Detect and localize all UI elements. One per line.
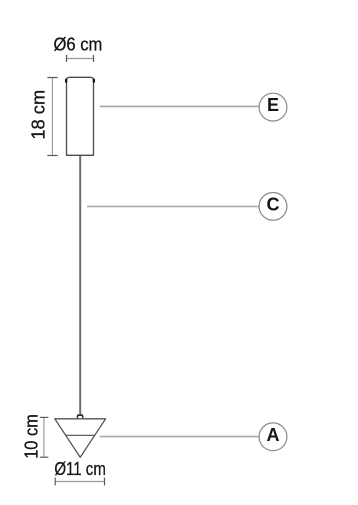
svg-text:Ø6 cm: Ø6 cm — [53, 33, 102, 54]
leader line to E — [100, 105, 259, 107]
canopy left rim mark — [65, 80, 67, 82]
canopy right rim mark — [93, 80, 95, 82]
svg-text:18 cm: 18 cm — [27, 90, 48, 140]
dimension line Ø6 (horizontal with end ticks) — [67, 55, 94, 62]
cable — [79, 156, 81, 415]
cone inner line — [65, 434, 95, 436]
svg-text:C: C — [267, 194, 280, 214]
svg-text:E: E — [267, 95, 279, 115]
label circle E — [259, 93, 287, 121]
cone shade A — [55, 419, 106, 458]
svg-text:10 cm: 10 cm — [20, 414, 41, 459]
svg-text:Ø11 cm: Ø11 cm — [54, 458, 106, 479]
label circle A — [259, 423, 287, 451]
dimension line 10 cm (vertical with end ticks) — [40, 417, 49, 457]
svg-text:A: A — [267, 425, 280, 445]
leader line to C — [87, 206, 259, 208]
leader line to A — [100, 436, 259, 438]
canopy cylinder E — [66, 77, 94, 155]
label circle C — [259, 193, 287, 221]
dimension line Ø11 (horizontal with end ticks) — [55, 478, 104, 486]
dimension line 18 cm (vertical with end ticks) — [47, 78, 57, 156]
cone connector nub — [77, 415, 83, 418]
